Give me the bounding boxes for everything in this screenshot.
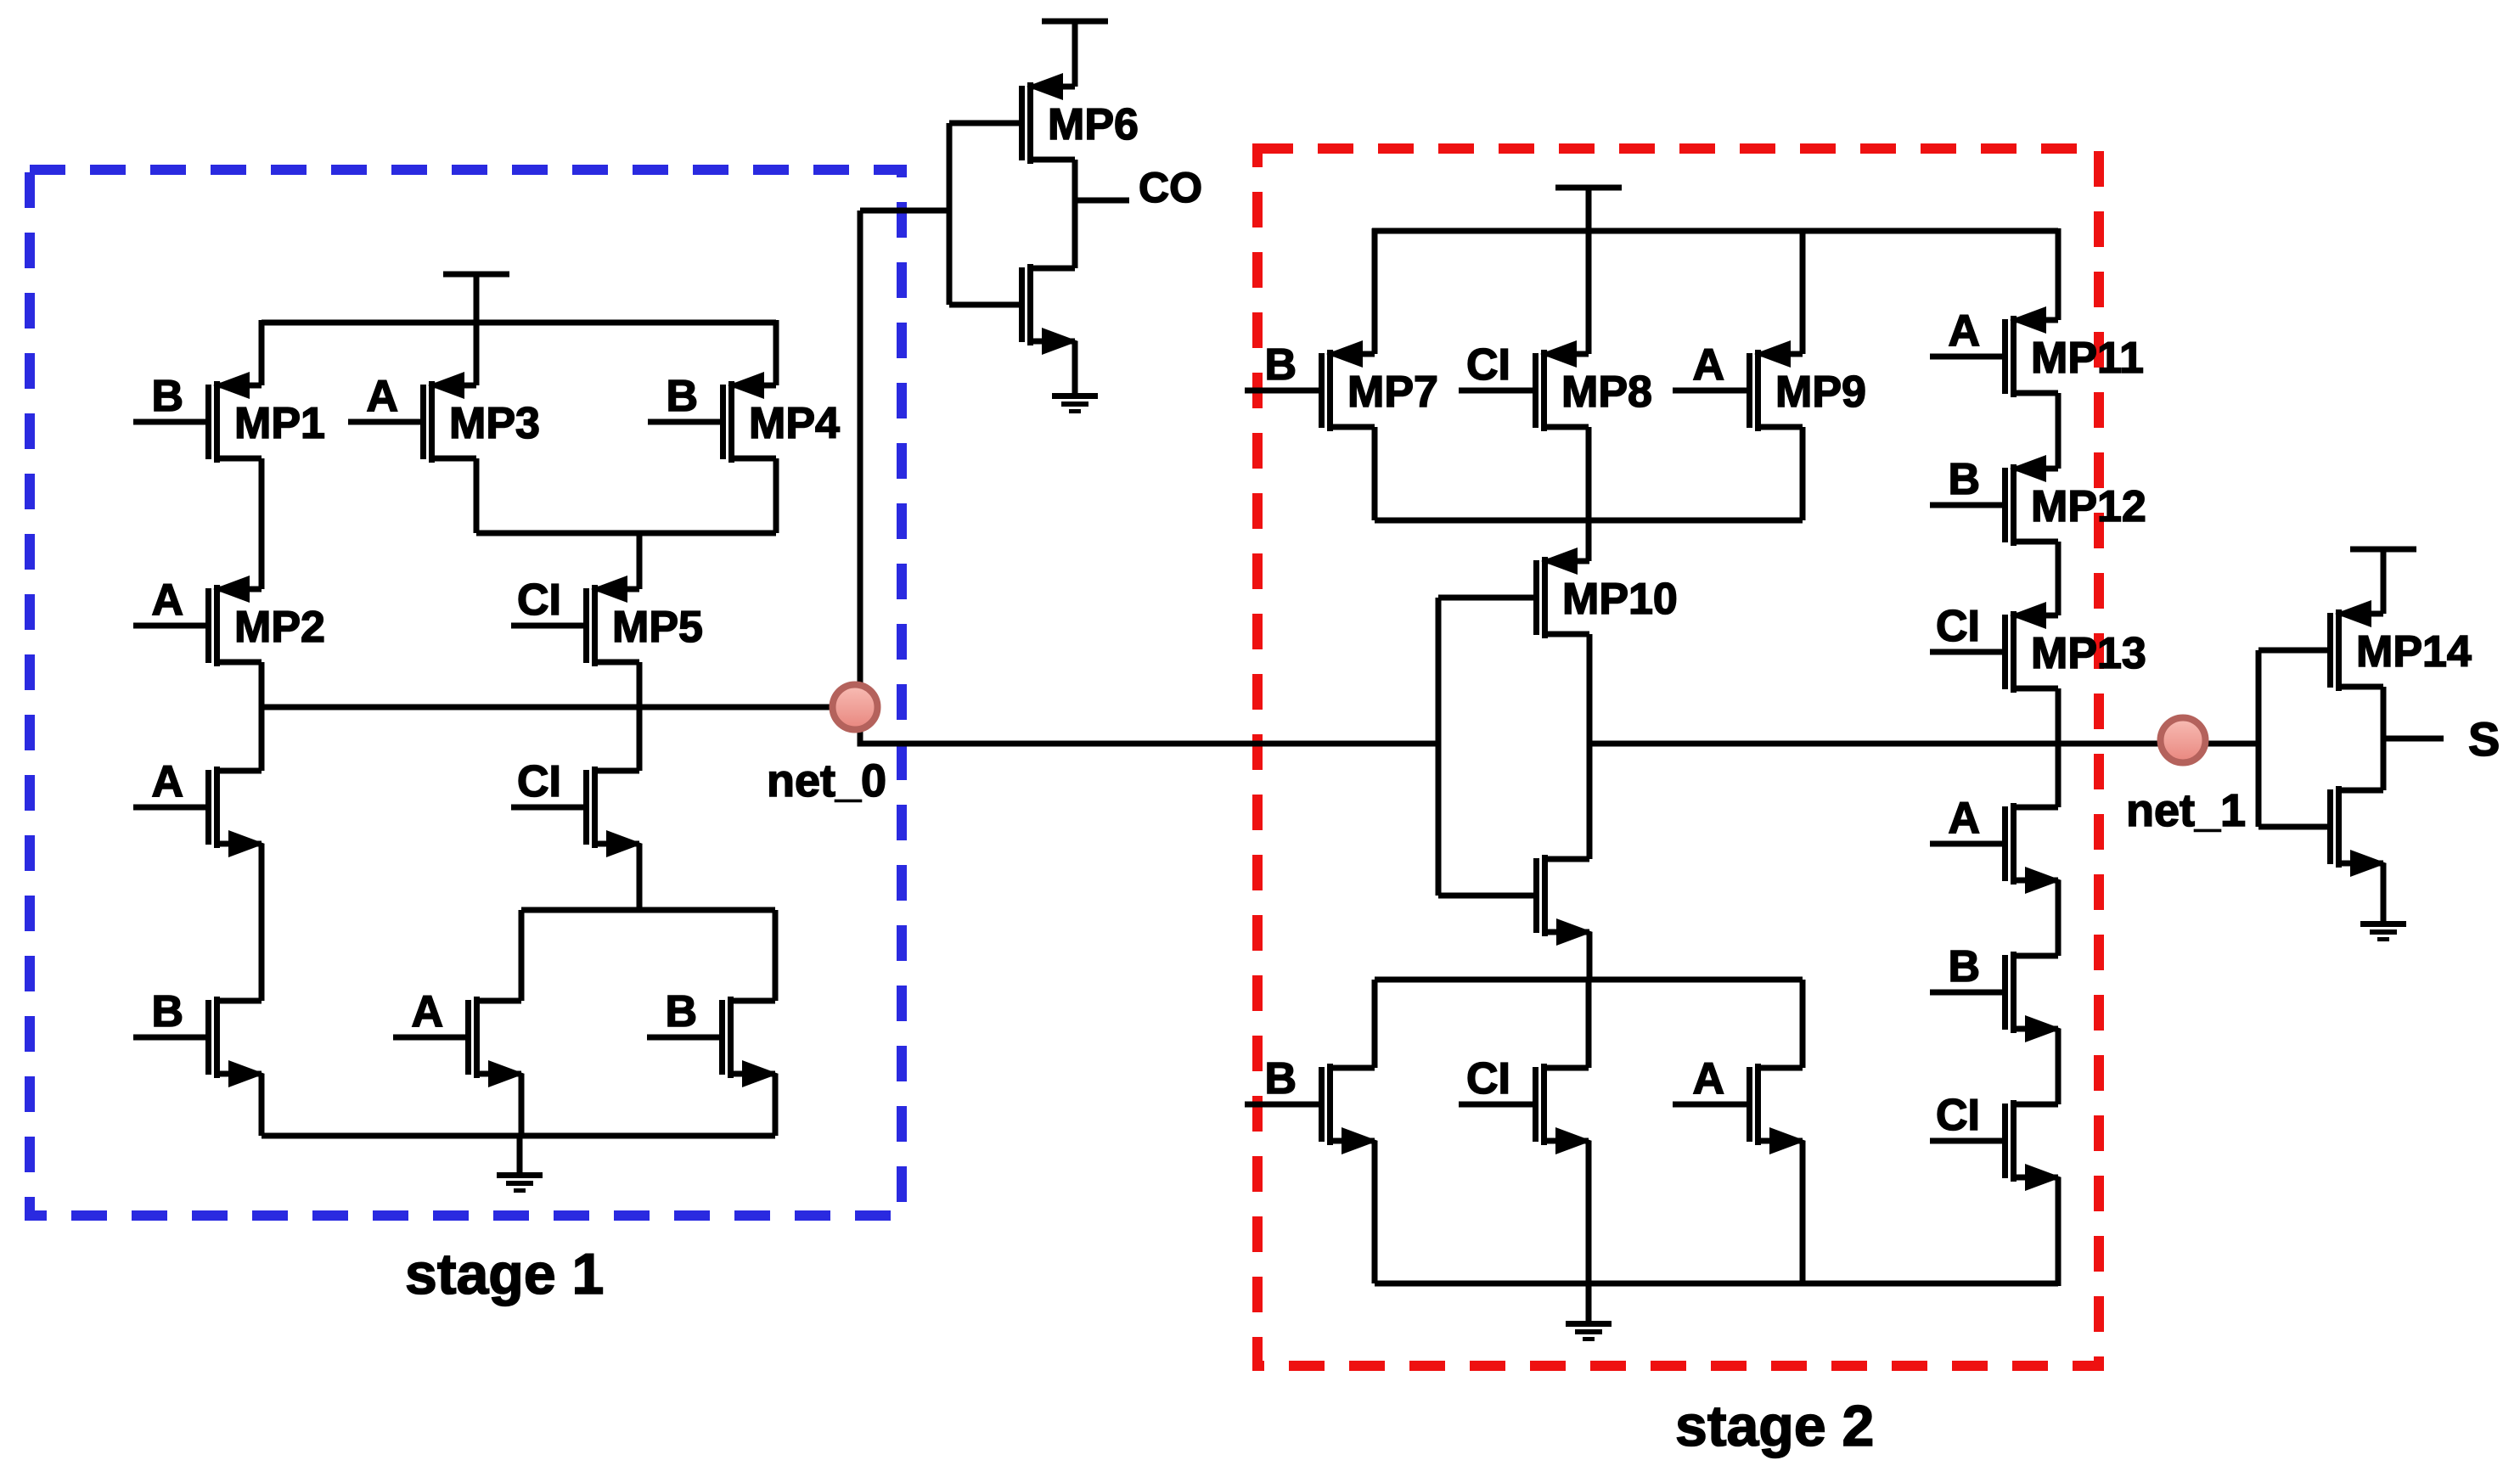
- transistor MP13 (PMOS): [1930, 602, 2058, 693]
- svg-text:A: A: [1692, 1054, 1724, 1104]
- transistor MNs2 (NMOS): [1930, 952, 2062, 1042]
- wire MP1 drain to MP2 source: [259, 458, 265, 589]
- wire MP14 gate stub: [2258, 648, 2327, 654]
- ground (CO inverter): [1052, 393, 1098, 413]
- ground (stage 2): [1566, 1321, 1612, 1341]
- wire stage2 lower mid rail: [1375, 977, 1803, 983]
- wire stage1 lower mid rail: [521, 907, 775, 913]
- transistor MNb2 (NMOS): [1459, 1064, 1592, 1154]
- wire down to NMOS A2 drain: [519, 910, 525, 1001]
- transistor MP10 (PMOS): [1533, 548, 1589, 638]
- svg-text:MP12: MP12: [2031, 482, 2146, 531]
- wire net_1 horizontal: [1589, 741, 2258, 747]
- wire MP14 drain to MN14 drain: [2381, 687, 2387, 790]
- wire CO inverter gate rail: [947, 123, 953, 305]
- svg-text:MP3: MP3: [449, 399, 540, 448]
- transistor MP8 (PMOS): [1459, 340, 1589, 431]
- svg-text:MP1: MP1: [234, 399, 325, 448]
- wire MN14 gate stub: [2258, 824, 2327, 830]
- ground (S inverter): [2360, 921, 2406, 941]
- wire CO output stub: [1075, 198, 1129, 204]
- svg-text:B: B: [1264, 340, 1297, 390]
- svg-text:CO: CO: [1139, 164, 1202, 211]
- svg-text:CI: CI: [517, 576, 561, 625]
- wire MP3-MP4 drains: [476, 531, 776, 536]
- svg-text:MP14: MP14: [2356, 627, 2472, 677]
- transistor MNs1 (NMOS): [1930, 803, 2062, 894]
- wire MP4 drain down: [773, 458, 779, 533]
- wire S output stub: [2383, 736, 2444, 742]
- transistor MP1 (PMOS): [133, 372, 262, 463]
- wire MN10 source down: [1587, 932, 1593, 980]
- wire MP10 gate stub: [1438, 595, 1533, 601]
- wire MNb2 source down: [1586, 1141, 1592, 1283]
- wire rail down to MP11 source: [2056, 228, 2062, 320]
- transistor MP11 (PMOS): [1930, 306, 2058, 397]
- wire MP8 drain down to MP10 source: [1586, 427, 1592, 561]
- transistor MNb1 (NMOS): [1245, 1064, 1378, 1154]
- svg-text:B: B: [666, 372, 698, 421]
- wire down to MNb3 drain: [1800, 980, 1806, 1068]
- transistor MN14 (NMOS): [2327, 786, 2387, 877]
- wire parallel PMOS drain rail: [1375, 518, 1803, 524]
- svg-text:MP10: MP10: [1562, 575, 1678, 624]
- wire MP11 drain to MP12 source: [2056, 393, 2062, 469]
- wire stage2 VDD rail: [1372, 228, 2058, 234]
- svg-text:net_0: net_0: [767, 755, 886, 806]
- wire MP6 drain to MN6 drain: [1072, 160, 1078, 268]
- wire stage1 ground rail: [262, 1133, 775, 1139]
- svg-text:A: A: [151, 757, 183, 806]
- wire VDD2 stem: [1586, 188, 1592, 231]
- wire MP10 gate rail: [1436, 598, 1442, 896]
- wire MP9 source up: [1800, 228, 1806, 354]
- transistor MN6 (NMOS): [1019, 264, 1078, 355]
- wire MP3 source up: [474, 323, 480, 385]
- wire MP3 drain down: [474, 458, 480, 533]
- transistor MNb3 (NMOS): [1673, 1064, 1806, 1154]
- wire NMOS CI source down: [637, 844, 643, 910]
- wire MP8 source up: [1586, 231, 1592, 354]
- power VDD (S inverter): [2350, 547, 2416, 553]
- transistor MNs3 (NMOS): [1930, 1100, 2062, 1191]
- svg-text:B: B: [1948, 455, 1980, 504]
- transistor MN_CI1 (NMOS): [511, 767, 643, 857]
- node net_0 junction circle: [833, 685, 878, 730]
- wire MP13 drain to net_1: [2056, 688, 2062, 744]
- transistor MP7 (PMOS): [1245, 340, 1375, 431]
- ground (stage 1): [497, 1172, 543, 1193]
- svg-text:B: B: [665, 987, 697, 1036]
- svg-text:B: B: [151, 372, 183, 421]
- wire MP5 drain to NMOS CI drain: [637, 662, 643, 771]
- svg-text:MP8: MP8: [1561, 368, 1652, 417]
- wire MNs3 source to ground rail: [2056, 1177, 2062, 1286]
- power VDD (stage 1): [443, 272, 509, 278]
- wire NMOS B2 source to ground rail: [773, 1074, 779, 1136]
- stage 1 boundary (blue dashed box): [30, 170, 902, 1216]
- wire MP12 drain to MP13 source: [2056, 542, 2062, 615]
- transistor MP6 (PMOS): [1019, 73, 1075, 164]
- svg-text:CI: CI: [1936, 1091, 1980, 1140]
- svg-text:A: A: [1948, 794, 1980, 843]
- wire net_1 down to NMOS stack: [2056, 744, 2062, 807]
- svg-text:CI: CI: [1466, 340, 1510, 390]
- svg-text:MP9: MP9: [1775, 368, 1866, 417]
- svg-text:MP5: MP5: [612, 603, 703, 652]
- power VDD (stage 2): [1555, 185, 1622, 191]
- wire MP6 gate stub: [949, 121, 1019, 126]
- svg-text:A: A: [151, 576, 183, 625]
- svg-text:CI: CI: [1466, 1054, 1510, 1104]
- wire MN14 source to ground: [2381, 863, 2387, 921]
- wire MP9 drain down: [1800, 427, 1806, 520]
- wire net_0 horizontal (stage 1): [262, 705, 855, 710]
- svg-text:B: B: [1264, 1054, 1297, 1104]
- transistor MN_B1 (NMOS): [133, 997, 265, 1087]
- wire stage2 ground stem: [1586, 1283, 1592, 1321]
- svg-text:MP11: MP11: [2031, 334, 2144, 383]
- transistor MN_A1 (NMOS): [133, 767, 265, 857]
- svg-text:A: A: [1692, 340, 1724, 390]
- wire CO inverter input: [860, 208, 949, 214]
- wire stage1 VDD rail: [262, 320, 776, 326]
- svg-text:CI: CI: [517, 757, 561, 806]
- wire net_0 up to CO inverter input: [858, 211, 863, 707]
- wire MP10 drain to MN10 drain: [1587, 634, 1593, 859]
- transistor MP3 (PMOS): [348, 372, 476, 463]
- wire NMOS A2 source to ground rail: [519, 1074, 525, 1136]
- transistor MP2 (PMOS): [133, 576, 262, 666]
- svg-text:MP6: MP6: [1048, 100, 1139, 149]
- svg-text:CI: CI: [1936, 602, 1980, 651]
- svg-text:B: B: [1948, 942, 1980, 991]
- svg-text:A: A: [411, 987, 443, 1036]
- node net_1 junction circle: [2161, 718, 2206, 763]
- transistor MP4 (PMOS): [648, 372, 776, 463]
- wire stage1 ground stem: [517, 1136, 523, 1172]
- transistor MN10 (NMOS): [1533, 855, 1593, 946]
- transistor MN_B2 (NMOS): [647, 997, 779, 1087]
- transistor MP12 (PMOS): [1930, 455, 2058, 546]
- svg-text:MP2: MP2: [234, 603, 325, 652]
- wire VDD stem MP6: [1072, 21, 1078, 87]
- wire net_0 to stage 2: [860, 707, 1438, 744]
- wire MN10 gate stub: [1438, 893, 1533, 899]
- svg-text:net_1: net_1: [2126, 785, 2246, 836]
- wire junction to MP5 source: [637, 533, 643, 589]
- wire S inverter gate rail: [2256, 650, 2262, 827]
- wire down to MNb1 drain: [1372, 980, 1378, 1068]
- svg-text:A: A: [1948, 306, 1980, 356]
- wire MP7 drain down: [1372, 427, 1378, 520]
- transistor MP14 (PMOS): [2327, 600, 2383, 691]
- wire VDD stem MP14: [2381, 549, 2387, 614]
- svg-text:MP13: MP13: [2031, 629, 2146, 678]
- svg-text:MP7: MP7: [1347, 368, 1438, 417]
- wire stage2 ground rail: [1375, 1281, 2058, 1287]
- svg-text:B: B: [151, 987, 183, 1036]
- wire MNb1 source down: [1372, 1141, 1378, 1283]
- wire NMOS A source down: [259, 844, 265, 1001]
- wire MNb3 source down: [1800, 1141, 1806, 1283]
- stage 2 boundary (red dashed box): [1257, 149, 2099, 1366]
- transistor MP9 (PMOS): [1673, 340, 1803, 431]
- svg-text:A: A: [366, 372, 398, 421]
- wire MP1 source up: [259, 320, 265, 385]
- transistor MP5 (PMOS): [511, 576, 639, 666]
- wire MNs1 source to MNs2 drain: [2056, 880, 2062, 956]
- svg-text:MP4: MP4: [749, 399, 840, 448]
- transistor MN_A2 (NMOS): [393, 997, 525, 1087]
- svg-text:stage 1: stage 1: [405, 1242, 604, 1306]
- svg-text:S: S: [2468, 712, 2500, 766]
- wire VDD1 stem: [474, 274, 480, 323]
- wire MP7 source up: [1372, 228, 1378, 354]
- wire down to NMOS B2 drain: [773, 910, 779, 1001]
- wire MN6 gate stub: [949, 302, 1019, 308]
- wire MNs2 source to MNs3 drain: [2056, 1029, 2062, 1104]
- wire MP2 drain to NMOS A drain: [259, 662, 265, 771]
- wire MN6 source to ground: [1072, 341, 1078, 393]
- wire down to MNb2 drain: [1586, 980, 1592, 1068]
- svg-text:stage 2: stage 2: [1675, 1394, 1874, 1458]
- wire MP4 source up: [773, 320, 779, 385]
- wire NMOS B1 source to ground rail: [259, 1074, 265, 1136]
- power VDD (CO inverter): [1042, 19, 1108, 25]
